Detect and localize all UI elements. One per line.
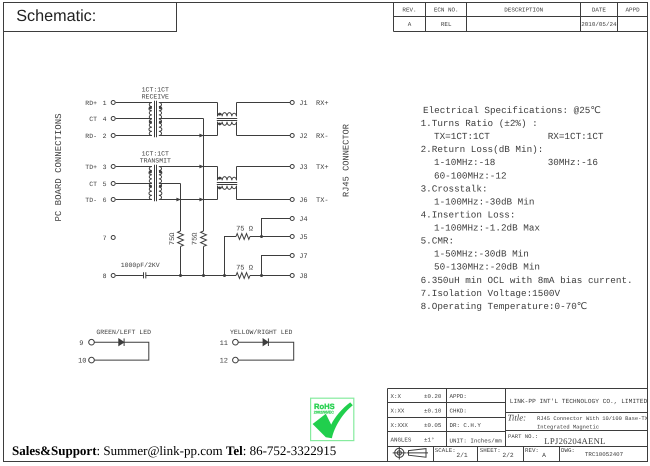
svg-text:X:XXX: X:XXX (391, 422, 409, 429)
pin J8 (290, 274, 294, 278)
svg-text:±1°: ±1° (424, 436, 434, 443)
RoHS checkmark (313, 402, 353, 438)
choke CMC1 core (217, 119, 237, 121)
svg-text:APPD:: APPD: (450, 393, 467, 400)
svg-text:RD+: RD+ (85, 100, 97, 107)
LED D2 yellow/right (263, 339, 268, 346)
svg-text:DR: C.H.Y: DR: C.H.Y (450, 422, 482, 429)
svg-text:±0.10: ±0.10 (424, 407, 442, 414)
transformer TRANSMIT primary winding (149, 167, 152, 200)
wire pin 3 to transformer (116, 166, 152, 168)
resistor R2 75ohm (receive CT) (201, 231, 207, 246)
svg-text:RJ45 CONNECTOR: RJ45 CONNECTOR (342, 124, 352, 197)
svg-text:CT: CT (89, 116, 97, 123)
svg-text:50-130MHz:-20dB Min: 50-130MHz:-20dB Min (434, 262, 540, 273)
svg-text:PC BOARD CONNECTIONS: PC BOARD CONNECTIONS (54, 113, 64, 221)
wire pin 2 to transformer (116, 135, 152, 137)
choke CMC2 left leads (217, 167, 219, 200)
title block grid (388, 389, 648, 462)
transformer TRANSMIT secondary winding (159, 167, 162, 200)
svg-text:10: 10 (78, 358, 86, 366)
T2 center-tap vertical to resistor R1 (180, 184, 182, 232)
choke CMC2 upper winding (218, 177, 237, 181)
svg-text:A: A (408, 21, 412, 28)
svg-text:TD+: TD+ (85, 164, 97, 171)
wire choke CMC1 to J2 (237, 135, 291, 137)
crossover hop marks (199, 134, 204, 138)
wire pin 11 to LED D2 (238, 341, 263, 343)
svg-text:2002/95/EC: 2002/95/EC (314, 410, 334, 414)
pin J6 (290, 198, 294, 202)
svg-text:1-100MHz:-30dB Min: 1-100MHz:-30dB Min (434, 196, 534, 207)
svg-text:J6 TX-: J6 TX- (299, 197, 328, 205)
wire branch to J7 (262, 256, 291, 276)
svg-text:8: 8 (103, 273, 107, 280)
transformer RECEIVE secondary winding (159, 103, 162, 136)
wire pin 4 to transformer (116, 118, 152, 120)
svg-text:5: 5 (103, 181, 107, 188)
svg-text:75Ω: 75Ω (192, 232, 200, 245)
svg-text:6: 6 (103, 197, 107, 204)
svg-text:1-100MHz:-1.2dB Max: 1-100MHz:-1.2dB Max (434, 223, 540, 234)
choke CMC1 phase dots (218, 113, 221, 116)
svg-text:LINK-PP INT'L TECHNOLOGY CO.,: LINK-PP INT'L TECHNOLOGY CO., LIMITED (510, 398, 648, 405)
svg-text:GREEN/LEFT LED: GREEN/LEFT LED (96, 329, 151, 336)
svg-text:1: 1 (103, 100, 107, 107)
svg-text:4: 4 (103, 116, 107, 123)
capacitor C1 plates (144, 272, 146, 278)
svg-text:60-100MHz:-12: 60-100MHz:-12 (434, 170, 507, 181)
svg-text:1000pF/2KV: 1000pF/2KV (121, 262, 160, 269)
title box Schematic (4, 3, 177, 32)
choke CMC2 phase dots (218, 177, 221, 180)
svg-text:1.Turns Ratio (±2%) :: 1.Turns Ratio (±2%) : (421, 118, 538, 129)
wire choke CMC1 to J1 (237, 102, 291, 104)
svg-text:J2 RX-: J2 RX- (299, 133, 328, 141)
first angle projection symbol (395, 448, 404, 457)
svg-text:75 Ω: 75 Ω (236, 226, 253, 234)
svg-text:UNIT: Inches/mm: UNIT: Inches/mm (450, 437, 503, 444)
svg-text:TX=1CT:1CT: TX=1CT:1CT (434, 131, 490, 142)
pin J7 (290, 254, 294, 258)
svg-text:±0.20: ±0.20 (424, 393, 442, 400)
pin J1 (290, 101, 294, 105)
svg-text:3: 3 (103, 164, 107, 171)
svg-text:DATE: DATE (592, 7, 607, 14)
svg-text:30MHz:-16: 30MHz:-16 (548, 157, 598, 168)
svg-text:2: 2 (103, 133, 107, 140)
T2 secondary top wire to choke CMC2 (159, 166, 218, 168)
wire pin 1 to transformer (116, 102, 152, 104)
svg-text:5.CMR:: 5.CMR: (421, 236, 454, 247)
svg-text:YELLOW/RIGHT LED: YELLOW/RIGHT LED (230, 329, 293, 336)
svg-text:8.Operating Temperature:0-70℃: 8.Operating Temperature:0-70℃ (421, 301, 588, 312)
choke CMC2 core (217, 183, 237, 185)
svg-text:1-10MHz:-18: 1-10MHz:-18 (434, 157, 495, 168)
choke CMC2 right leads (236, 167, 238, 200)
svg-text:1-50MHz:-30dB Min: 1-50MHz:-30dB Min (434, 249, 529, 260)
svg-text:Title:: Title: (508, 413, 527, 423)
transformer TRANSMIT phase dots (149, 170, 152, 173)
pin J3 (290, 165, 294, 169)
choke CMC1 left leads (217, 103, 219, 136)
wire choke CMC2 to J3 (237, 166, 291, 168)
wire branch to J4 (262, 219, 291, 237)
pin J4 (290, 217, 294, 221)
svg-text:RJ45 Connector With 10/100 Bas: RJ45 Connector With 10/100 Base-TX (537, 415, 649, 422)
svg-text:CHKD:: CHKD: (450, 407, 467, 414)
svg-text:TD-: TD- (85, 197, 97, 204)
svg-text:CT: CT (89, 181, 97, 188)
svg-text:4.Insertion Loss:: 4.Insertion Loss: (421, 209, 516, 220)
junction dots on ground rail (179, 274, 182, 277)
svg-text:ANGLES: ANGLES (391, 436, 412, 443)
T1 secondary top wire to choke CMC1 (159, 102, 218, 104)
svg-text:PART NO.:: PART NO.: (508, 433, 538, 440)
svg-text:TRC10052407: TRC10052407 (585, 451, 624, 458)
svg-text:SHEET:: SHEET: (480, 447, 501, 454)
svg-text:7.Isolation Voltage:1500V: 7.Isolation Voltage:1500V (421, 288, 561, 299)
svg-text:REV:: REV: (525, 447, 539, 454)
svg-text:1CT:1CT: 1CT:1CT (142, 87, 169, 94)
wire R3 to J5 (250, 236, 290, 238)
transformer TRANSMIT core (155, 165, 157, 202)
T1 secondary center-tap wire (159, 118, 204, 120)
svg-text:2/1: 2/1 (456, 452, 468, 459)
wire LED D2 to pin 12 (238, 342, 293, 360)
svg-text:J7: J7 (299, 253, 307, 261)
choke CMC1 lower winding (218, 122, 237, 126)
svg-text:2.Return Loss(dB Min):: 2.Return Loss(dB Min): (421, 144, 544, 155)
svg-text:LPJ26204AENL: LPJ26204AENL (544, 436, 605, 446)
svg-text:SCALE:: SCALE: (435, 447, 456, 454)
wire LED D1 to pin 10 (95, 342, 149, 360)
svg-text:6.350uH min OCL with 8mA bias: 6.350uH min OCL with 8mA bias current. (421, 275, 633, 286)
choke CMC1 right leads (236, 103, 238, 136)
ground rail wire from C1 to R4 (146, 275, 236, 277)
rail wire R4 to J8 (250, 275, 290, 277)
svg-text:X:XX: X:XX (391, 407, 405, 414)
svg-text:RECEIVE: RECEIVE (142, 94, 169, 101)
svg-text:RD-: RD- (85, 133, 97, 140)
wire R2 to bottom rail (203, 247, 205, 276)
svg-text:9: 9 (79, 340, 83, 348)
transformer RECEIVE core (155, 101, 157, 138)
resistor R1 75ohm (transmit CT) (178, 231, 184, 246)
svg-text:75Ω: 75Ω (169, 232, 177, 245)
transformer RECEIVE primary winding (149, 103, 152, 136)
svg-text:X:X: X:X (391, 393, 402, 400)
svg-text:TRANSMIT: TRANSMIT (140, 158, 171, 165)
resistor R3 75ohm (to J5) (236, 234, 250, 240)
wire rail branch up to J5 resistor (225, 237, 237, 276)
svg-text:7: 7 (103, 235, 107, 242)
svg-text:DESCRIPTION: DESCRIPTION (504, 7, 543, 14)
svg-text:Electrical Specifications: @25: Electrical Specifications: @25℃ (423, 105, 601, 116)
svg-text:J3 TX+: J3 TX+ (299, 164, 328, 172)
svg-text:1CT:1CT: 1CT:1CT (142, 151, 169, 158)
svg-text:J1 RX+: J1 RX+ (299, 100, 328, 108)
junction dot J4 branch (260, 235, 263, 238)
svg-text:75 Ω: 75 Ω (236, 264, 253, 272)
svg-text:J4: J4 (299, 216, 307, 224)
pin J5 (290, 235, 294, 239)
wire R1 to bottom rail (180, 247, 182, 276)
wire pin 9 to LED D1 (95, 341, 119, 343)
svg-text:Integrated Magnetic: Integrated Magnetic (537, 423, 599, 430)
svg-text:11: 11 (220, 340, 228, 348)
svg-text:ECN NO.: ECN NO. (434, 7, 459, 14)
wire choke CMC2 to J6 (237, 199, 291, 201)
T2 secondary bottom wire to choke CMC2 (159, 199, 218, 201)
svg-text:12: 12 (220, 358, 228, 366)
wire pin 6 to transformer (116, 199, 152, 201)
wire pin 8 to capacitor C1 (116, 275, 143, 277)
T1 secondary bottom wire to choke CMC1 (159, 135, 218, 137)
choke CMC1 upper winding (218, 113, 237, 117)
svg-text:Schematic:: Schematic: (16, 7, 96, 25)
resistor R4 75ohm (in rail to J8) (236, 273, 250, 279)
svg-text:A: A (542, 452, 546, 459)
svg-text:REV.: REV. (402, 7, 416, 14)
LED D1 green/left (119, 339, 124, 346)
svg-text:J5: J5 (299, 234, 307, 242)
svg-text:2010/05/24: 2010/05/24 (581, 21, 617, 28)
svg-text:DWG:: DWG: (561, 447, 575, 454)
wire pin 5 to transformer (116, 183, 152, 185)
svg-text:±0.05: ±0.05 (424, 422, 442, 429)
pin J2 (290, 134, 294, 138)
svg-text:RX=1CT:1CT: RX=1CT:1CT (548, 131, 604, 142)
svg-text:REL: REL (441, 21, 452, 28)
T2 secondary center-tap wire (159, 183, 181, 185)
svg-text:2/2: 2/2 (502, 452, 514, 459)
svg-text:Sales&Support: Summer@link-pp.: Sales&Support: Summer@link-pp.com Tel: 8… (12, 443, 336, 458)
svg-text:J8: J8 (299, 273, 307, 281)
svg-text:3.Crosstalk:: 3.Crosstalk: (421, 183, 488, 194)
choke CMC2 lower winding (218, 186, 237, 190)
transformer RECEIVE phase dots (149, 106, 152, 109)
RoHS compliance logo (311, 398, 354, 440)
svg-text:APPD: APPD (626, 7, 641, 14)
T1 center-tap vertical to resistor R2 (203, 119, 205, 232)
revision table (394, 3, 648, 32)
